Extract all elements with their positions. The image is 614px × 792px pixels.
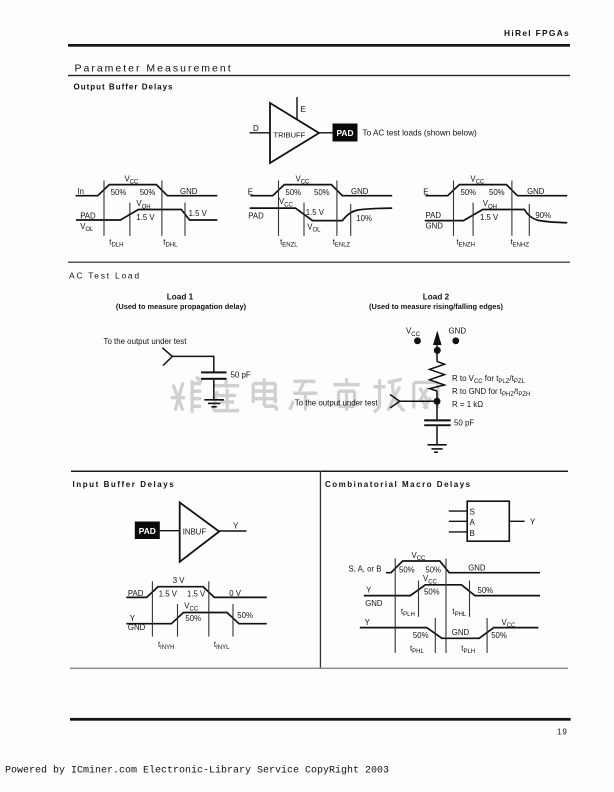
svg-text:(Used to measure propagation d: (Used to measure propagation delay) (116, 302, 247, 311)
svg-text:VCC: VCC (279, 197, 294, 208)
tick tINYL start (208, 581, 210, 636)
box top rule (71, 471, 568, 473)
pin wire Y macro (509, 520, 524, 522)
svg-text:GND: GND (449, 327, 467, 336)
wire buffer output to PAD (319, 132, 333, 134)
tick S fall long (445, 559, 447, 654)
tick tENZL end (303, 203, 305, 236)
svg-text:GND: GND (452, 628, 470, 637)
node GND terminal dot (452, 337, 459, 344)
svg-text:1.5 V: 1.5 V (480, 213, 499, 222)
title underline (68, 75, 570, 76)
tick Y2 fall (469, 581, 471, 617)
wire node to C2 (436, 401, 438, 419)
tick Y3 rise (486, 618, 488, 653)
tick tENHZ start (511, 181, 513, 236)
tick tENZH end (472, 203, 474, 236)
svg-text:50%: 50% (413, 631, 429, 640)
svg-text:R to GND for tPHZ/tPZH: R to GND for tPHZ/tPZH (452, 387, 530, 398)
footer rule (70, 718, 571, 721)
waveform Y rising macro (364, 585, 540, 596)
watermark weiku (171, 377, 438, 413)
svg-text:INBUF: INBUF (183, 528, 207, 537)
section rule (68, 262, 570, 263)
svg-text:50%: 50% (461, 188, 477, 197)
svg-text:50 pF: 50 pF (231, 371, 251, 380)
wire PAD to INBUF (160, 530, 180, 532)
svg-text:PAD: PAD (426, 211, 442, 220)
tick tENLZ end (350, 204, 352, 236)
svg-text:50%: 50% (424, 587, 440, 596)
capacitor C2 plate top (424, 419, 451, 421)
svg-text:Combinatorial Macro Delays: Combinatorial Macro Delays (325, 480, 472, 489)
waveform PAD input buffer (126, 587, 266, 598)
svg-text:To AC test loads (shown below): To AC test loads (shown below) (363, 129, 477, 138)
svg-text:Y: Y (366, 585, 372, 594)
macro block (467, 501, 509, 541)
svg-text:GND: GND (426, 222, 444, 231)
svg-text:AC Test Load: AC Test Load (69, 271, 141, 281)
capacitor C1 plate top (201, 371, 227, 373)
svg-text:PAD: PAD (80, 212, 96, 221)
svg-text:S, A, or B: S, A, or B (349, 565, 382, 574)
capacitor C2 plate bottom (424, 424, 451, 426)
svg-text:S: S (470, 508, 475, 517)
svg-text:VCC: VCC (184, 601, 199, 612)
node junction top of R (434, 347, 441, 354)
svg-text:3 V: 3 V (173, 576, 186, 585)
waveform E d2 (251, 185, 393, 196)
box bottom rule (70, 668, 568, 669)
pin wire B (449, 531, 467, 533)
svg-text:50%: 50% (185, 614, 201, 623)
svg-text:90%: 90% (535, 211, 551, 220)
wire L2 pin to node (400, 400, 434, 402)
svg-text:Input Buffer Delays: Input Buffer Delays (73, 480, 176, 489)
svg-text:Parameter Measurement: Parameter Measurement (75, 63, 233, 75)
wire C1 to ground (213, 380, 215, 400)
capacitor C1 plate bottom (201, 378, 227, 380)
svg-text:tPLH: tPLH (401, 607, 415, 618)
svg-text:Y: Y (365, 618, 371, 627)
svg-text:B: B (470, 529, 475, 538)
svg-text:tENZL: tENZL (280, 237, 298, 248)
tick tDHL start (161, 181, 163, 236)
svg-text:50%: 50% (111, 188, 127, 197)
svg-text:TRIBUFF: TRIBUFF (274, 130, 306, 139)
svg-text:Y: Y (233, 522, 239, 531)
svg-text:1.5 V: 1.5 V (189, 209, 208, 218)
svg-text:Output Buffer Delays: Output Buffer Delays (74, 82, 174, 91)
svg-text:VOL: VOL (80, 222, 94, 233)
tick tINYH end (177, 604, 179, 637)
waveform Y input buffer (126, 613, 266, 624)
node VCC terminal dot (414, 337, 421, 344)
tick tINYH start (151, 581, 153, 636)
svg-text:tENHZ: tENHZ (511, 237, 530, 248)
tick tENLZ start (336, 181, 338, 236)
svg-text:A: A (470, 518, 476, 527)
svg-text:D: D (253, 124, 259, 133)
buffer U2 INBUF triangle (180, 503, 220, 562)
svg-text:tPHL: tPHL (410, 644, 425, 655)
svg-text:10%: 10% (356, 214, 372, 223)
svg-text:0 V: 0 V (229, 589, 242, 598)
tick Y2 rise (418, 581, 420, 617)
wire R to node (436, 391, 438, 404)
svg-text:PAD: PAD (248, 212, 264, 221)
ground GND2 (428, 445, 447, 452)
node junction output/cap (434, 398, 441, 405)
svg-text:tDLH: tDLH (109, 237, 123, 248)
svg-text:PAD: PAD (139, 526, 156, 536)
svg-text:Y: Y (130, 614, 136, 623)
svg-text:tENLZ: tENLZ (333, 237, 351, 248)
ground GND1 (204, 400, 224, 407)
svg-text:1.5 V: 1.5 V (187, 590, 206, 599)
svg-text:tPHL: tPHL (452, 607, 467, 618)
svg-text:HiRel FPGAs: HiRel FPGAs (504, 28, 570, 38)
header rule (68, 44, 570, 47)
svg-text:50%: 50% (314, 188, 330, 197)
switch arrow to supply (433, 331, 442, 345)
svg-text:50%: 50% (399, 566, 415, 575)
resistor R1 zigzag (430, 362, 445, 392)
tick tDHL end (184, 203, 186, 236)
waveform PAD output (76, 210, 217, 221)
svg-text:VCC: VCC (406, 327, 421, 338)
wire INBUF output Y (219, 530, 246, 532)
svg-text:E: E (248, 188, 253, 197)
waveform Y falling macro (360, 628, 539, 639)
input pin D wire (250, 132, 271, 134)
svg-text:R = 1 kΩ: R = 1 kΩ (452, 400, 483, 409)
svg-text:VCC: VCC (423, 574, 438, 585)
svg-text:Load 1: Load 1 (167, 292, 194, 301)
svg-text:GND: GND (365, 599, 383, 608)
enable pin E wire (296, 97, 298, 120)
svg-text:tINYH: tINYH (158, 640, 175, 651)
svg-text:tDHL: tDHL (163, 237, 178, 248)
svg-text:In: In (78, 187, 85, 196)
pin symbol output L1 (162, 348, 172, 366)
waveform PAD d2 with exponential rise (250, 208, 393, 221)
svg-text:Y: Y (530, 518, 536, 527)
tick tDLH end (129, 203, 131, 236)
svg-text:To the output under test: To the output under test (295, 399, 379, 408)
svg-text:Powered by ICminer.com Electro: Powered by ICminer.com Electronic-Librar… (5, 765, 389, 777)
svg-text:50%: 50% (286, 188, 302, 197)
pad PAD block input (135, 522, 160, 540)
svg-text:19: 19 (557, 728, 568, 737)
svg-text:tPLH: tPLH (461, 644, 475, 655)
svg-text:50%: 50% (478, 586, 494, 595)
svg-text:To the output under test: To the output under test (104, 337, 188, 346)
svg-text:GND: GND (527, 187, 545, 196)
svg-text:50 pF: 50 pF (454, 418, 474, 427)
svg-text:GND: GND (468, 563, 486, 572)
svg-text:tINYL: tINYL (214, 640, 230, 651)
svg-text:PAD: PAD (128, 589, 144, 598)
svg-text:PAD: PAD (336, 128, 353, 138)
svg-text:50%: 50% (489, 188, 505, 197)
buffer U1 TRIBUFF triangle (270, 103, 319, 163)
wire L1 horizontal (172, 355, 214, 357)
wire L1 down to capacitor (213, 356, 215, 371)
pin wire S (449, 510, 467, 512)
tick tENZH start (453, 181, 455, 236)
wire arrow shaft (436, 342, 438, 362)
svg-text:Load 2: Load 2 (423, 292, 450, 301)
svg-text:tENZH: tENZH (457, 237, 476, 248)
svg-text:E: E (423, 188, 428, 197)
box divider (320, 471, 321, 669)
pin wire A (449, 520, 467, 522)
svg-text:1.5 V: 1.5 V (136, 213, 155, 222)
tick tENZL start (278, 181, 280, 236)
wire C2 to ground (436, 426, 438, 444)
svg-text:1.5 V: 1.5 V (306, 208, 325, 217)
svg-text:R to VCC for tPLZ/tPZL: R to VCC for tPLZ/tPZL (452, 374, 525, 385)
waveform In (76, 185, 218, 196)
svg-text:50%: 50% (491, 631, 507, 640)
tick tENHZ end (528, 204, 530, 236)
tick tDLH start (103, 181, 105, 236)
waveform E d3 (426, 185, 568, 196)
svg-text:1.5 V: 1.5 V (159, 590, 178, 599)
svg-text:GND: GND (351, 187, 369, 196)
pin symbol output L2 (390, 395, 400, 409)
tick tINYL end (232, 604, 234, 637)
svg-text:50%: 50% (237, 611, 253, 620)
waveform S A or B (386, 561, 540, 573)
waveform PAD d3 with exponential fall (425, 210, 568, 223)
svg-text:GND: GND (180, 187, 198, 196)
tick S rise long (394, 559, 396, 654)
pad PAD block (333, 124, 358, 142)
tick Y3 fall (434, 618, 436, 653)
svg-text:(Used to measure rising/fallin: (Used to measure rising/falling edges) (369, 302, 503, 311)
svg-text:E: E (301, 105, 306, 114)
svg-text:GND: GND (128, 623, 146, 632)
svg-text:VOL: VOL (307, 222, 321, 233)
svg-text:50%: 50% (140, 188, 156, 197)
